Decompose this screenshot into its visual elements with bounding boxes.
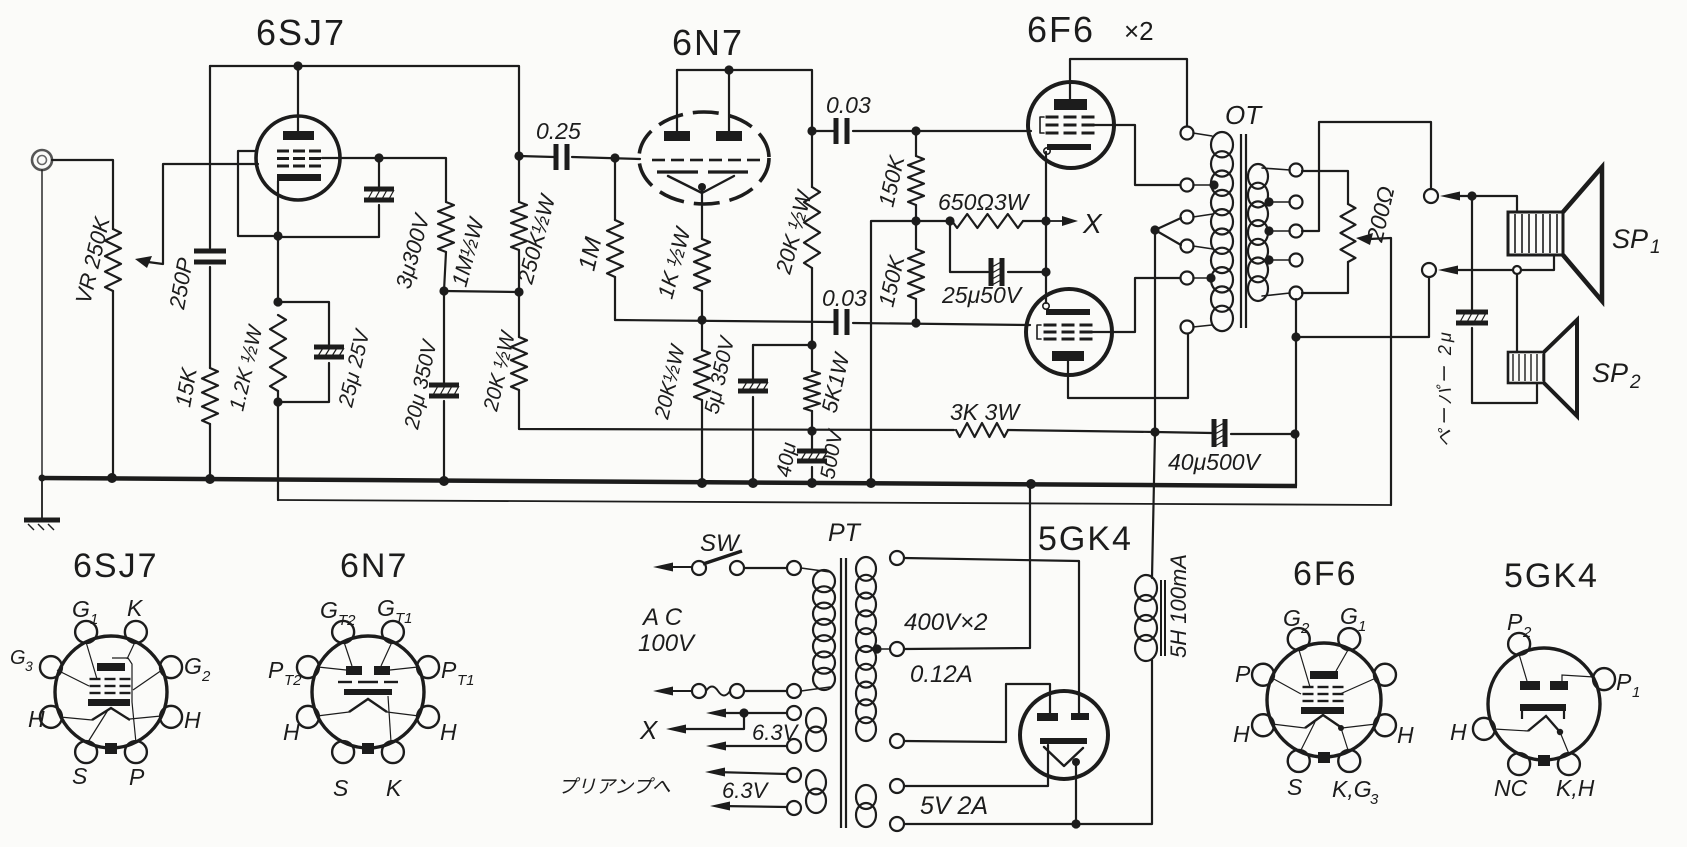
wire 20K bias to bus (701, 400, 703, 484)
terminal OT primary 4 (1181, 240, 1194, 253)
resistor 3K 3W (956, 423, 1008, 437)
svg-text:P: P (129, 764, 145, 790)
svg-text:1: 1 (1650, 237, 1661, 258)
svg-text:NC: NC (1494, 775, 1528, 801)
wire 200Ω wiper feedback (1369, 238, 1391, 505)
node B+ at choke (1150, 427, 1159, 436)
wire OT s2 lead (1269, 201, 1290, 203)
capacitor 250P (194, 249, 226, 265)
svg-text:5K1W: 5K1W (817, 349, 855, 415)
arrow SP2 plug (1438, 266, 1458, 275)
terminal OT secondary 5 (1290, 287, 1303, 300)
tube 6SJ7 plate (283, 131, 314, 140)
socket 6F6 (1252, 628, 1396, 772)
svg-text:5μ 350V: 5μ 350V (700, 333, 739, 416)
node OT sec tap3 (1264, 255, 1273, 264)
tube 5GK4 envelope (1020, 691, 1108, 779)
node 5K/40u junction (807, 426, 816, 435)
speaker SP1 voice coil (1508, 212, 1563, 255)
svg-text:3: 3 (25, 658, 33, 674)
wire 250K bottom lead (518, 250, 520, 292)
svg-text:5V 2A: 5V 2A (920, 792, 988, 820)
svg-text:G: G (184, 653, 202, 679)
node bus left end (39, 475, 46, 482)
svg-text:650Ω3W: 650Ω3W (938, 189, 1031, 215)
terminal PT primary bottom (787, 684, 801, 698)
wire 6F6 upper screen (1094, 125, 1181, 185)
tube 6F6 upper grid bracket (1040, 117, 1044, 133)
svg-text:6SJ7: 6SJ7 (73, 547, 159, 585)
wire HV bottom to plate (904, 684, 1050, 742)
wire SP2 jack line (1451, 269, 1512, 271)
capacitor 0.03 lower (834, 309, 850, 335)
wire 1K bottom (701, 291, 703, 320)
wire 25μ25V branch bottom (278, 363, 329, 402)
wire top rail B via 6SJ7 plate (210, 66, 519, 156)
svg-text:T1: T1 (457, 672, 475, 689)
wire HV top to plate (904, 558, 1079, 713)
terminal 6.3V-2 bottom (787, 801, 801, 815)
speaker SP2 horn (1544, 320, 1577, 416)
coil OT primary (1211, 132, 1233, 331)
wire 6SJ7 plate to top rail (297, 66, 299, 131)
arrow AC hot (653, 563, 692, 572)
svg-text:25μ 25V: 25μ 25V (334, 326, 375, 410)
wire 1M leak bottom (614, 277, 616, 320)
svg-text:S: S (1287, 774, 1303, 800)
tube 6N7 plate left (664, 131, 690, 141)
svg-text:1K ½W: 1K ½W (653, 223, 696, 301)
capacitor 0.03 upper (834, 118, 850, 144)
capacitor 5μ350V (738, 379, 768, 394)
capacitor 25μ25V (314, 345, 344, 360)
wire 250P to 15K (209, 267, 211, 368)
transformer PT core (841, 558, 846, 828)
wire 1.2K bottom (277, 391, 279, 500)
node 150K mid (911, 216, 920, 225)
svg-text:H: H (28, 706, 45, 732)
wire SP1 coil return (1521, 256, 1554, 270)
wire bias bus (615, 320, 834, 322)
terminal HV top (890, 551, 904, 565)
svg-text:0.25: 0.25 (536, 118, 581, 144)
svg-text:G: G (1340, 603, 1358, 629)
wire 6F6 cathodes (1045, 152, 1047, 303)
wire 1M leak top (614, 158, 616, 220)
terminal OT secondary 4 (1290, 254, 1303, 267)
wire 250K top lead (518, 156, 520, 202)
svg-text:G: G (1283, 605, 1301, 631)
svg-text:40μ: 40μ (772, 440, 801, 479)
svg-text:X: X (1082, 208, 1103, 239)
wire PT primary top lead (801, 568, 830, 572)
wire 150K ground return (871, 221, 950, 485)
svg-text:150K: 150K (874, 152, 910, 209)
svg-text:H: H (1450, 719, 1467, 745)
wire 150K-2 bottom (915, 299, 917, 323)
switch contact 1 (692, 561, 706, 575)
node ground bus x=753 (748, 478, 758, 488)
svg-text:250P: 250P (164, 256, 198, 312)
node OT sec tap2 (1264, 226, 1273, 235)
tube 6F6 lower envelope (1026, 289, 1112, 375)
wire SP1 jack to speaker (1453, 196, 1517, 212)
wire pot bottom to sec5 (1302, 262, 1348, 293)
svg-text:6N7: 6N7 (672, 22, 744, 63)
wire OT t4 lead (1193, 246, 1213, 249)
choke core (1161, 580, 1165, 656)
tube 6SJ7 grids (277, 151, 321, 166)
node 6SJ7 plate RC (514, 151, 523, 160)
capacitor 0.25 (554, 144, 570, 170)
svg-text:H: H (283, 719, 300, 745)
wire 6SJ7 suppressor (238, 151, 273, 236)
input jack J1 (32, 150, 52, 170)
node ground bus x=871 (866, 478, 876, 488)
svg-text:G: G (320, 597, 338, 623)
svg-text:1: 1 (1632, 684, 1640, 701)
svg-text:5GK4: 5GK4 (1504, 557, 1599, 595)
tube 6SJ7 cathode (277, 174, 321, 181)
arrow heater1 bottom (706, 742, 726, 751)
svg-text:G: G (72, 596, 90, 622)
wire OT tap V lower (1155, 230, 1181, 245)
node 25u50V/cathode (1041, 267, 1050, 276)
wire SP2 ground link (1295, 299, 1297, 486)
wire heater1 top (716, 712, 787, 714)
node suppressor-cathode (273, 231, 282, 240)
wire 20u bottom (443, 401, 445, 483)
node rect output joins 5V (1071, 819, 1080, 828)
resistor 150K upper (908, 156, 924, 205)
wire input to VR (52, 160, 113, 229)
wire 25u50V right (1008, 271, 1046, 273)
socket 5GK4 (1473, 633, 1615, 775)
wire 6N7 plates top rail (677, 70, 812, 131)
wire switch to PT (744, 567, 787, 569)
terminal SP2 jack (1422, 263, 1436, 277)
wire OT B+ down to choke (1154, 230, 1156, 432)
wire PT primary bottom lead (801, 687, 830, 691)
wire 5u bottom (752, 397, 754, 484)
svg-text:SP: SP (1592, 358, 1628, 388)
svg-text:K: K (386, 775, 403, 801)
capacitor 20μ350V (429, 383, 459, 399)
arrow heater2 top (705, 768, 725, 777)
wire VR wiper to 6SJ7 grid (148, 164, 258, 264)
svg-text:P: P (441, 657, 457, 683)
coil 6.3V no1 (806, 708, 826, 751)
socket 6SJ7 internals (57, 642, 162, 743)
svg-text:20K ½W: 20K ½W (479, 327, 520, 414)
tube 6F6 lower grids (1044, 325, 1093, 339)
svg-text:K: K (127, 595, 144, 621)
wire 6SJ7 screen to right (322, 158, 446, 202)
terminal 6.3V-2 top (787, 768, 801, 782)
fuse element (706, 687, 730, 696)
terminal HV bottom (890, 734, 904, 748)
terminal 5V bottom (890, 817, 904, 831)
node lower 150K junction (911, 318, 920, 327)
node ground bus x=210 (205, 474, 215, 484)
wire OT s3 lead (1269, 230, 1290, 232)
wire 1M bottom (444, 252, 446, 291)
svg-text:500V: 500V (816, 427, 848, 481)
resistor 1.2K 1/2W (270, 315, 286, 391)
wire choke top (1152, 432, 1155, 578)
svg-text:ペーパー 2μ: ペーパー 2μ (1435, 329, 1455, 447)
wire 5K bottom (811, 411, 813, 431)
wire HV ct to ground bus (904, 486, 1030, 649)
node OT tap lower (1206, 273, 1215, 282)
wire OT t3 lead (1193, 214, 1213, 217)
socket 5GK4 internals (1494, 654, 1594, 754)
wire 20u top (443, 291, 445, 383)
wire sec3 jumper up (1302, 122, 1431, 231)
coil 6.3V no2 (806, 770, 826, 813)
wire OT t6 lead (1193, 325, 1212, 327)
svg-text:G: G (377, 595, 395, 621)
node cathode junction (1041, 216, 1050, 225)
wiper arrow of VR (135, 256, 152, 268)
svg-text:1M½W: 1M½W (447, 213, 490, 289)
svg-text:1: 1 (90, 611, 98, 628)
node 5GK4 output (1072, 758, 1080, 766)
terminal OT primary 6 (1181, 321, 1194, 334)
svg-text:H: H (440, 719, 457, 745)
resistor 1M (607, 220, 623, 277)
svg-text:25μ50V: 25μ50V (941, 282, 1024, 308)
coil OT secondary (1248, 164, 1268, 301)
wire 25u50V left (950, 221, 988, 272)
node upper 150K junction (911, 126, 920, 135)
resistor 20K 1/2W plate (804, 187, 820, 268)
svg-text:×2: ×2 (1124, 16, 1154, 46)
terminal 5V top (890, 779, 904, 793)
wire 150K-1 top (915, 131, 917, 156)
coil PT HV (856, 557, 876, 741)
tube 6N7 grid dashes (652, 159, 665, 162)
tube 5GK4 heater (1044, 747, 1083, 766)
resistor 15K (202, 368, 218, 424)
terminal OT primary 5 (1181, 272, 1194, 285)
node 2μ top (1467, 191, 1476, 200)
svg-text:3K 3W: 3K 3W (950, 399, 1021, 425)
switch contact 2 (730, 561, 744, 575)
node 6N7 plate RC (807, 126, 816, 135)
wire 40u-2 to ground end (1231, 433, 1293, 435)
tube 6N7 envelope (639, 112, 769, 204)
wire to 0.03 upper (812, 130, 834, 132)
node cathode top of 1.2K (273, 297, 282, 306)
terminal OT primary 1 (1181, 127, 1194, 140)
wire feedback rail (278, 500, 1391, 505)
svg-text:6F6: 6F6 (1027, 9, 1095, 50)
wire 0.03 upper to grid (853, 130, 1031, 132)
node 1.2K bottom (273, 397, 282, 406)
node OT B+ junction (1150, 225, 1159, 234)
arrow heater1 top (706, 709, 726, 718)
wire input ground drop (41, 170, 43, 477)
arrow AC neutral (653, 687, 692, 696)
wire B+ right segment (1008, 430, 1212, 433)
tube 5GK4 plate right (1071, 713, 1089, 720)
wire fuse to PT (744, 690, 787, 692)
wire 6N7 left plate up (676, 70, 678, 131)
speaker SP1 horn (1563, 167, 1602, 301)
svg-text:2: 2 (1300, 620, 1310, 637)
svg-text:OT: OT (1225, 100, 1263, 130)
wire 150K-2 top (915, 221, 917, 249)
resistor 250K 1/2W (511, 202, 527, 250)
potentiometer 200Ω (1341, 204, 1356, 262)
wire 20K plate bottom (811, 268, 813, 345)
wire 20K to B+ line (519, 390, 954, 430)
tube 6N7 heater (668, 176, 734, 193)
svg-text:H: H (184, 707, 201, 733)
tube 6F6 upper envelope (1028, 82, 1114, 168)
terminal 6.3V-1 bottom (787, 739, 801, 753)
node OT tap upper (1209, 180, 1218, 189)
switch lever (703, 551, 742, 564)
svg-text:6.3V: 6.3V (752, 720, 800, 745)
svg-text:SW: SW (700, 530, 741, 557)
ground bus (40, 478, 1297, 486)
node ground bus x=702 (697, 478, 707, 488)
svg-text:X: X (639, 715, 659, 745)
arrow heater2 bottom (710, 802, 730, 811)
wire 15K to ground bus (209, 424, 211, 478)
potentiometer VR 250K (105, 229, 121, 291)
node ground bus x=1031 (1026, 479, 1036, 489)
node 1K/20K junction (697, 315, 706, 324)
resistor 20K 1/2W bias (694, 350, 710, 400)
node screen/3u junction (374, 153, 383, 162)
wire 0.03 lower to grid (853, 323, 1030, 325)
socket 6F6 internals (1272, 650, 1376, 750)
wire 40u-1 bottom (811, 467, 813, 484)
node 6N7 grid (610, 153, 619, 162)
wire HV ct lead (877, 648, 890, 650)
capacitor 40μ500V first (797, 449, 827, 464)
wire 3u top (378, 158, 380, 187)
svg-text:T2: T2 (338, 612, 356, 629)
wire to 0.25 (519, 156, 554, 157)
svg-text:S: S (72, 763, 88, 789)
wire 20K bias top (701, 320, 703, 350)
terminal HV center (890, 642, 904, 656)
resistor 5K 1W (804, 371, 820, 411)
wire VR bottom to ground bus (112, 291, 114, 478)
wire 6F6 lower screen (1092, 278, 1181, 332)
tube 6F6 upper cathode (1044, 144, 1091, 154)
wire 25μ25V branch top (278, 302, 329, 345)
svg-text:3μ300V: 3μ300V (391, 209, 435, 291)
svg-text:2: 2 (1522, 624, 1532, 641)
arrow test point X (1046, 216, 1078, 226)
wire 650 to cathodes (1023, 220, 1046, 222)
wire heater2 bottom (720, 806, 787, 807)
svg-text:0.03: 0.03 (822, 285, 867, 311)
svg-text:K,G: K,G (1332, 776, 1372, 802)
node B+ decoupled right (514, 287, 523, 296)
wire 3u bottom to cathode box (278, 205, 379, 237)
terminal PT primary top (787, 561, 801, 575)
svg-text:P: P (1235, 661, 1251, 687)
terminal OT primary 2 (1181, 179, 1194, 192)
svg-text:P: P (268, 657, 284, 683)
wire OT tap V upper (1155, 218, 1181, 230)
fuse cap left (692, 684, 706, 698)
svg-text:400V×2: 400V×2 (904, 609, 987, 636)
svg-text:A C: A C (641, 604, 683, 631)
wire 20K top lead (518, 292, 520, 337)
socket 6SJ7 (40, 621, 182, 763)
node HV center tap (872, 644, 881, 653)
svg-text:T1: T1 (395, 610, 413, 627)
svg-text:5GK4: 5GK4 (1038, 520, 1133, 558)
svg-text:150K: 150K (874, 252, 910, 309)
terminal SP1 jack (1424, 189, 1438, 203)
wire 6F6 lower plate to OT (1068, 333, 1188, 398)
wire 5V bottom rail (904, 660, 1152, 824)
svg-text:6F6: 6F6 (1293, 555, 1358, 593)
node plate junction on top rail (293, 61, 302, 70)
node 40u-2 ground (1290, 429, 1299, 438)
svg-text:6N7: 6N7 (340, 547, 408, 585)
wire 0.25 to 6N7 grid (572, 157, 640, 159)
node 20K/5K junction (807, 340, 816, 349)
svg-text:G: G (10, 647, 26, 669)
svg-text:1: 1 (1358, 618, 1366, 635)
node OT sec tap1 (1264, 197, 1273, 206)
speaker SP2 voice coil (1508, 352, 1544, 383)
terminal OT secondary 2 (1290, 196, 1303, 209)
wire top rail to 250P (209, 66, 211, 248)
wire OT t2 lead (1193, 184, 1212, 186)
svg-text:6SJ7: 6SJ7 (256, 12, 346, 53)
tube 6N7 plate right (716, 131, 742, 141)
wire OT s4 lead (1269, 259, 1290, 261)
tube 6SJ7 envelope (256, 116, 340, 200)
svg-text:PT: PT (828, 519, 862, 547)
svg-text:T2: T2 (284, 672, 302, 689)
svg-text:P: P (1616, 669, 1632, 695)
svg-text:1.2K ½W: 1.2K ½W (225, 322, 267, 413)
wire 5u350V link (753, 344, 812, 346)
svg-text:20K ½W: 20K ½W (770, 186, 817, 277)
node ground bus x=112 (107, 473, 117, 483)
svg-text:0.12A: 0.12A (910, 661, 973, 688)
arrow SP1 plug (1440, 192, 1460, 201)
tube 6F6 lower plate (1052, 351, 1084, 361)
node X takeoff (739, 708, 748, 717)
node ground bus x=812 (807, 478, 817, 488)
socket 6N7 internals (317, 642, 419, 742)
socket 6N7 (297, 621, 439, 763)
wire 6N7 right plate up (728, 70, 730, 131)
svg-text:5H 100mA: 5H 100mA (1166, 554, 1191, 658)
capacitor 25μ50V (989, 258, 1005, 286)
wire heater1 bottom (716, 745, 787, 747)
resistor 1M 1/2W (438, 202, 454, 252)
coil PT 5V (856, 785, 876, 827)
wire 20K plate top (811, 131, 813, 187)
svg-text:P: P (1507, 609, 1523, 635)
svg-text:100V: 100V (638, 630, 696, 657)
svg-text:15K: 15K (170, 365, 202, 409)
svg-text:3: 3 (1370, 791, 1379, 808)
